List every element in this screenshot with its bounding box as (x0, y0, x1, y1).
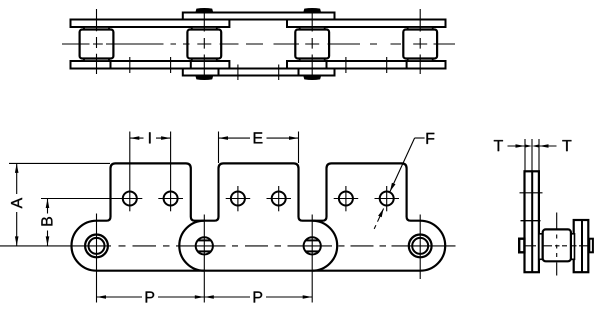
T dimension lines (508, 145, 526, 147)
bushing right (end view) (571, 234, 575, 259)
attachment holes (6) (123, 192, 394, 206)
pin 2 riveted end (196, 237, 213, 254)
label gap backgrounds (10, 194, 24, 212)
label A (11, 198, 22, 209)
label P right (254, 291, 263, 302)
pin 4 vertical centerline (top view) (419, 9, 421, 74)
pin 4 head circles (409, 235, 432, 258)
E dimension line (219, 137, 299, 139)
F leader line (390, 138, 415, 192)
pin 1 vertical centerline (top view) (96, 9, 98, 74)
P dimension line 1 (97, 296, 205, 298)
chain horizontal centerline (side view) (0, 245, 456, 247)
end view vertical centerline (556, 213, 558, 276)
roller 3 (top view) (295, 30, 329, 59)
roller 1 (top view) (80, 30, 114, 59)
T labels (494, 140, 572, 151)
dimension A line (16, 163, 18, 246)
pin 1 vertical centerline / P extension (96, 214, 98, 303)
attachment hole centerline ticks (top view) (130, 57, 387, 80)
T arrowheads (516, 144, 549, 148)
label F (426, 133, 434, 144)
arrowheads (15, 136, 396, 298)
roller (end view) (543, 229, 571, 261)
pin 2 vertical centerline / P extension (203, 215, 205, 303)
bushing ends (top view) (84, 27, 433, 61)
label I (149, 132, 150, 143)
outer link plate 2-3 bottom strip (183, 69, 335, 76)
dimension B line (47, 199, 49, 246)
plate end arc around pin 3 (312, 221, 337, 271)
pin 3 rivet heads (top view) (303, 8, 321, 80)
bushing left (end view) (539, 234, 543, 259)
inner link plate 3-4 top strip (287, 20, 446, 28)
inner link plate 1-2 top strip (71, 20, 230, 28)
hole centerline tick (end view) (520, 192, 543, 194)
dimension A extension line (tab top) (9, 162, 110, 164)
P dimension line 2 (204, 296, 312, 298)
pin 2 rivet heads (top view) (195, 8, 213, 80)
label B (41, 217, 52, 226)
waist level tick (end view) (521, 220, 541, 222)
right side plates (end view) (574, 220, 589, 272)
pin 4 vertical centerline (419, 215, 421, 280)
plate end arc around pin 2 (179, 221, 204, 271)
pin 3 riveted end (304, 237, 321, 254)
F arrows (390, 183, 396, 192)
T extension lines (525, 139, 539, 171)
label P left (146, 291, 155, 302)
pin 3 vertical centerline (top view) (311, 12, 313, 76)
attachment tab edge marks on bottom strips (111, 61, 407, 76)
I dimension line (130, 137, 171, 139)
P arrows (97, 295, 107, 299)
B arrows (46, 199, 50, 209)
hole centerlines (41, 186, 399, 211)
inner link plate 3-4 bottom strip (287, 61, 446, 69)
pin 3 vertical centerline / P extension (311, 215, 313, 303)
left attachment plates (tabs, edge view) (525, 171, 539, 272)
dimension labels (10, 131, 435, 304)
end view horizontal centerline (524, 245, 589, 247)
pin end right (589, 239, 593, 253)
roller 2 (top view) (187, 30, 221, 59)
I extension lines through holes (129, 132, 131, 212)
E extension lines (218, 132, 220, 164)
pin end left (519, 239, 524, 253)
E arrows (219, 136, 229, 140)
inner link plate 1-2 bottom strip (71, 61, 230, 69)
dimension B extension line (hole centerline) (41, 198, 142, 200)
roller 4 (top view) (403, 30, 437, 59)
F lower dashed tail (378, 209, 384, 222)
chain horizontal centerline (top view) (62, 43, 455, 45)
A arrows (15, 163, 19, 173)
chain silhouette with attachment tabs (71, 163, 445, 270)
pin 1 head circles (85, 235, 108, 258)
label E (254, 132, 263, 143)
pin 2 vertical centerline (top view) (203, 12, 205, 76)
outer link plate 2-3 top strip (183, 13, 335, 20)
I arrows (pointing outward) (130, 136, 140, 140)
